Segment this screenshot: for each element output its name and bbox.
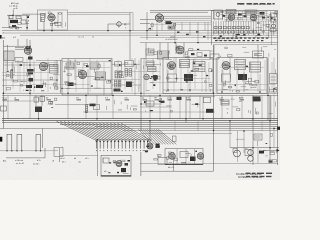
svg-text:o2 c4 b: o2 c4 b: [78, 36, 84, 38]
svg-text:FIGURE 21 - RECEIVER: FIGURE 21 - RECEIVER: [236, 174, 262, 176]
svg-text:b 2c: b 2c: [37, 160, 41, 162]
svg-text:Ab2: Ab2: [2, 37, 5, 40]
svg-text:b2 e: b2 e: [62, 162, 66, 164]
svg-text:b6: b6: [74, 158, 76, 160]
svg-text:To an: To an: [2, 97, 7, 99]
svg-text:o4 b8: o4 b8: [170, 37, 175, 39]
svg-text:bl 2: bl 2: [13, 37, 16, 39]
svg-text:c2 a8 e4 b6 a2: c2 a8 e4 b6 a2: [165, 39, 178, 41]
svg-text:o2 44 c: o2 44 c: [33, 164, 40, 166]
svg-text:b4 o 2c: b4 o 2c: [168, 167, 174, 169]
svg-text:SCHEMATIC No.12345: SCHEMATIC No.12345: [238, 176, 263, 179]
svg-text:w 2bl out: w 2bl out: [15, 159, 23, 162]
svg-text:a6: a6: [92, 36, 94, 38]
svg-text:a2 e: a2 e: [85, 158, 89, 160]
svg-text:17c: 17c: [76, 97, 79, 99]
svg-text:cn 40: cn 40: [13, 8, 18, 10]
svg-text:an 3c 44: an 3c 44: [16, 163, 25, 165]
svg-text:c 2d: c 2d: [219, 97, 223, 99]
svg-text:c4 o2: c4 o2: [60, 158, 65, 160]
svg-text:o2 c: o2 c: [104, 171, 108, 173]
svg-text:an 4c: an 4c: [167, 97, 172, 99]
